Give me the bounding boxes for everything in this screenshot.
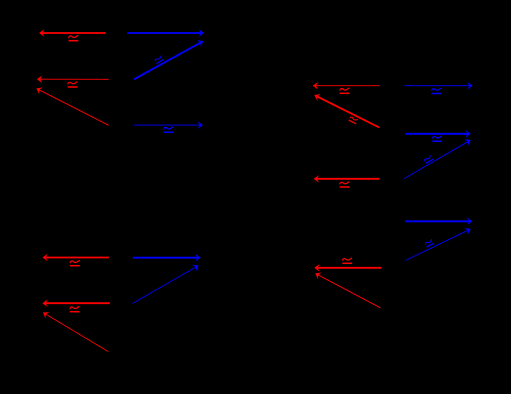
label tilde-bar under TL row3 blue arrow [164, 127, 174, 132]
BL row1 blue k arrow [133, 254, 201, 262]
TR row2 blue k arrow [405, 130, 471, 138]
TR row1 red k-prime arrow [313, 82, 380, 90]
BR row1 blue k arrow [405, 218, 472, 226]
BR row2 blue diagonal k arrow [405, 228, 470, 261]
label tilde-bar under BL row2 red arrow [70, 307, 80, 312]
TL row3 blue k arrow [134, 121, 203, 129]
label tilde-bar above BR row2 red arrow [342, 258, 352, 263]
label tilde-bar on TL row2 blue diagonal [154, 56, 163, 64]
label tilde-bar under BL row1 red arrow [70, 261, 80, 266]
TL row2 blue diagonal k arrow [134, 40, 203, 79]
BL row2 blue diagonal arrow [132, 265, 198, 304]
TR row3 blue diagonal k arrow [404, 139, 471, 178]
label tilde-bar under TR row1 blue arrow [432, 88, 442, 93]
TL row1 red k-prime arrow [39, 29, 106, 37]
label tilde-bar on BR row2 blue diagonal [425, 239, 434, 247]
TL row1 blue k arrow [127, 29, 204, 37]
label tilde-bar under TR row3 red arrow [340, 182, 350, 187]
TR row2 red diagonal k-prime arrow [314, 94, 379, 128]
label tilde-bar on TR row3 blue diagonal [424, 155, 433, 163]
label tilde-bar under TR row1 red arrow [340, 88, 350, 93]
TL row3 red diagonal arrow [36, 87, 108, 125]
BL row2 red k-prime arrow [42, 299, 109, 307]
label tilde-bar under TL row2 red arrow [68, 82, 78, 87]
BL row1 red k-prime arrow [42, 254, 109, 262]
TR row3 red k-prime arrow [314, 175, 380, 183]
TL row2 red k-prime arrow [37, 75, 109, 83]
label tilde-bar under TR row2 blue arrow [432, 136, 442, 141]
label tilde-bar on TR row2 red diagonal [349, 116, 358, 124]
BR row2 red k-prime arrow [314, 264, 381, 272]
BR row3 red diagonal arrow [315, 273, 380, 308]
TR row1 blue k arrow [404, 82, 472, 90]
label tilde-bar under TL row1 red arrow [69, 36, 79, 41]
BL row3 red diagonal arrow [43, 312, 108, 352]
